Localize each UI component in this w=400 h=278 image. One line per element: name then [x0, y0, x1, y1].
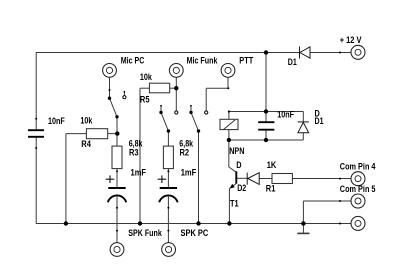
svg-text:R5: R5 — [140, 94, 150, 104]
svg-text:R2: R2 — [180, 148, 190, 158]
svg-text:D: D — [236, 160, 241, 170]
svg-text:D1: D1 — [288, 57, 297, 67]
svg-text:R3: R3 — [129, 148, 139, 158]
svg-text:Mic Funk: Mic Funk — [187, 56, 218, 66]
svg-text:R4: R4 — [81, 139, 91, 149]
svg-text:1mF: 1mF — [131, 168, 147, 178]
svg-text:T1: T1 — [230, 199, 239, 209]
svg-text:SPK PC: SPK PC — [181, 228, 209, 238]
svg-text:10nF: 10nF — [48, 116, 65, 126]
svg-text:+ 12 V: + 12 V — [340, 35, 362, 45]
svg-text:10k: 10k — [80, 116, 92, 126]
svg-text:D1: D1 — [315, 116, 324, 126]
svg-text:Com Pin 5: Com Pin 5 — [340, 184, 376, 194]
svg-text:PTT: PTT — [239, 56, 254, 66]
svg-text:10nF: 10nF — [277, 109, 294, 119]
svg-text:Com Pin 4: Com Pin 4 — [340, 162, 376, 172]
svg-text:1mF: 1mF — [181, 168, 197, 178]
svg-text:Mic PC: Mic PC — [121, 56, 145, 66]
svg-text:SPK Funk: SPK Funk — [128, 228, 162, 238]
svg-text:10k: 10k — [140, 72, 152, 82]
svg-text:D2: D2 — [237, 183, 246, 193]
svg-text:R1: R1 — [266, 183, 276, 193]
svg-text:1K: 1K — [267, 160, 277, 170]
svg-text:NPN: NPN — [229, 146, 244, 156]
